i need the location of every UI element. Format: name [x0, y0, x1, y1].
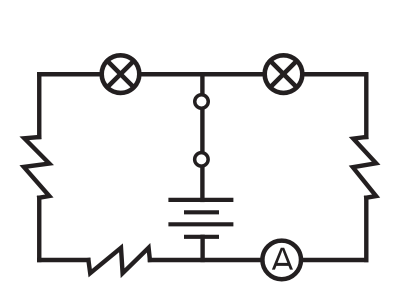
- wire: bottom-right segment, ammeter to right corner: [303, 258, 366, 262]
- resistor R3 (right side sawtooth): [353, 137, 376, 198]
- lamp L2 (circle with X): [265, 55, 303, 93]
- ammeter A1: [262, 241, 301, 280]
- lamp L1 (circle with X): [102, 55, 140, 93]
- wire: top-left segment, left corner to lamp L1: [39, 72, 99, 76]
- wire: top segment between lamps: [141, 72, 262, 76]
- wire: middle branch drop from top wire to switch: [200, 74, 204, 93]
- wire: bottom middle segment, resistor R2 to ammeter: [150, 258, 260, 262]
- resistor R2 (bottom sawtooth): [88, 248, 149, 273]
- battery B1 (two cells): [168, 200, 233, 237]
- wire: battery to bottom wire: [200, 237, 204, 260]
- wire: right side, top corner down to resistor R3: [364, 74, 368, 137]
- switch contact terminal (upper circle): [195, 95, 209, 109]
- switch contact terminal (lower circle): [195, 153, 209, 167]
- wire: bottom-left, corner to resistor R2: [39, 258, 88, 262]
- wire: switch to battery: [200, 168, 204, 200]
- resistor R1 (left side sawtooth): [24, 137, 50, 198]
- wire: left side, resistor R1 to bottom corner: [37, 198, 41, 260]
- wire: switch blade between contacts: [200, 110, 204, 151]
- wire: left side, top corner down to resistor R1: [37, 74, 41, 137]
- wire: right side, resistor R3 to bottom corner: [364, 198, 368, 260]
- wire: top-right segment, lamp L2 to right corner: [304, 72, 366, 76]
